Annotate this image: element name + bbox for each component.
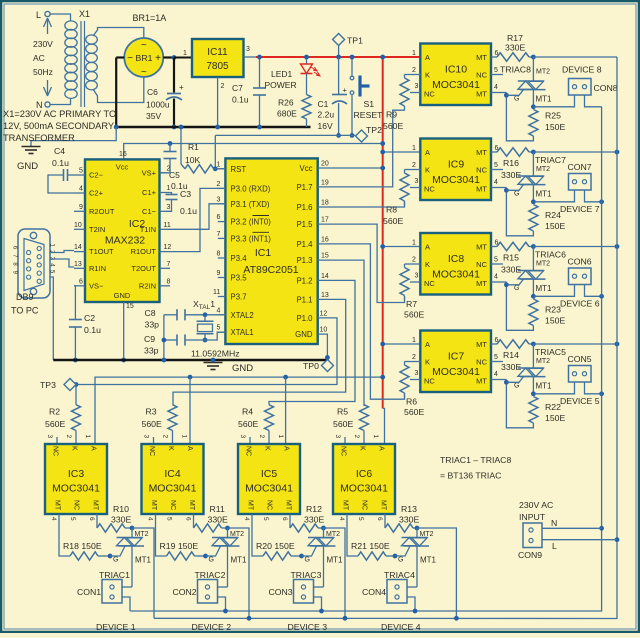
svg-text:150E: 150E — [545, 413, 565, 423]
svg-text:MOC3041: MOC3041 — [432, 366, 480, 378]
svg-text:DEVICE 1: DEVICE 1 — [96, 622, 136, 632]
pin labels 4 5 6 — [338, 517, 383, 521]
wire A IC6 — [383, 408, 385, 444]
svg-text:18: 18 — [321, 200, 329, 207]
svg-text:TRIAC6: TRIAC6 — [535, 250, 566, 260]
pin 5 stub — [491, 257, 503, 265]
pin 16 wire to R6 — [318, 236, 405, 399]
svg-text:~: ~ — [141, 67, 147, 78]
svg-text:330E: 330E — [505, 43, 525, 53]
svg-text:C2−: C2− — [89, 171, 104, 180]
label R10 — [111, 504, 131, 525]
wire L bus — [154, 57, 617, 619]
wire — [214, 135, 216, 168]
resistor R20 150E — [252, 514, 304, 560]
pin 2 — [217, 181, 226, 189]
wire — [172, 99, 177, 130]
label CON8 — [594, 83, 618, 93]
svg-text:3: 3 — [167, 204, 171, 211]
triac TRIAC7 — [518, 152, 546, 202]
svg-text:MT1: MT1 — [327, 556, 344, 565]
svg-text:35V: 35V — [146, 111, 161, 121]
svg-text:G: G — [305, 557, 310, 564]
pin 1 label — [412, 337, 416, 344]
svg-text:DEVICE 7: DEVICE 7 — [560, 204, 600, 214]
svg-text:12: 12 — [320, 310, 328, 317]
svg-text:MOC3041: MOC3041 — [432, 269, 480, 281]
wire — [74, 286, 75, 320]
svg-text:K: K — [425, 260, 430, 269]
wire CON to N row — [218, 597, 228, 613]
pin labels 4 5 6 — [243, 517, 288, 521]
resistor R18 150E — [59, 514, 112, 560]
wire MT2 to L bus — [533, 56, 617, 58]
connector CON8 — [569, 79, 592, 96]
svg-text:NC: NC — [361, 500, 368, 510]
wire CON to MT1 — [533, 382, 574, 394]
wire — [257, 95, 262, 129]
svg-text:5: 5 — [69, 517, 76, 521]
svg-text:P1.4: P1.4 — [296, 240, 313, 249]
svg-text:DEVICE 3: DEVICE 3 — [288, 622, 328, 632]
svg-text:C1: C1 — [318, 99, 329, 109]
svg-text:G: G — [514, 191, 519, 198]
svg-text:LED1: LED1 — [271, 69, 293, 79]
svg-text:15: 15 — [321, 253, 329, 260]
resistor R14 330E — [497, 340, 536, 348]
svg-text:R8: R8 — [386, 205, 397, 215]
label CON6 — [568, 257, 592, 267]
label R11 — [208, 504, 228, 525]
svg-text:A: A — [283, 446, 290, 451]
svg-text:K: K — [167, 446, 174, 451]
wire DB9 pin3 — [50, 259, 74, 267]
pin 2 stub — [405, 257, 421, 265]
svg-text:T1OUT: T1OUT — [89, 247, 114, 256]
svg-text:CON6: CON6 — [568, 257, 592, 267]
svg-text:19: 19 — [321, 179, 329, 186]
resistor R19 150E — [156, 514, 208, 560]
svg-text:G: G — [209, 557, 214, 564]
svg-text:3: 3 — [415, 178, 419, 185]
svg-text:4: 4 — [79, 186, 83, 193]
pin 15 ground wire — [121, 302, 134, 362]
svg-text:16: 16 — [321, 236, 329, 243]
svg-text:3: 3 — [143, 435, 150, 439]
svg-text:AT89C2051: AT89C2051 — [243, 264, 298, 276]
label R6 — [404, 397, 424, 418]
svg-text:NC: NC — [340, 446, 347, 456]
label R23 — [545, 305, 565, 326]
svg-text:150E: 150E — [545, 316, 565, 326]
svg-text:5: 5 — [79, 168, 83, 175]
svg-text:X1: X1 — [79, 9, 90, 19]
svg-text:MT1: MT1 — [536, 190, 553, 199]
label BR1=1A — [133, 13, 167, 23]
wire to XTAL1 pin — [205, 332, 225, 340]
wire CON to MT1 — [533, 285, 574, 297]
svg-text:330E: 330E — [501, 265, 521, 275]
label TRIAC8 — [500, 65, 531, 75]
resistor R4 560E — [265, 405, 274, 444]
label G — [113, 557, 118, 564]
wire to RST — [213, 166, 225, 171]
svg-text:MT: MT — [476, 53, 487, 62]
svg-text:CON1: CON1 — [77, 587, 101, 597]
svg-text:560E: 560E — [383, 121, 403, 131]
wire — [50, 98, 71, 105]
svg-text:IC3: IC3 — [68, 468, 85, 480]
svg-text:R10: R10 — [113, 504, 129, 514]
svg-text:C7: C7 — [232, 83, 243, 93]
label DEVICE 3 — [288, 622, 328, 632]
label TRIAC1 — [99, 570, 130, 580]
svg-text:1: 1 — [167, 185, 171, 192]
svg-text:3: 3 — [217, 196, 221, 203]
pin 6 stub — [491, 145, 499, 152]
svg-text:R16: R16 — [503, 158, 519, 168]
wire CON to N bus — [585, 190, 604, 204]
pin 2 stub — [405, 162, 421, 170]
label R12 — [304, 504, 324, 525]
svg-text:2: 2 — [65, 435, 72, 439]
svg-text:P3.2 (INT0): P3.2 (INT0) — [231, 218, 272, 227]
svg-text:IC7: IC7 — [448, 351, 465, 363]
label R22 — [545, 402, 565, 423]
label MT1 — [536, 382, 553, 391]
label G — [305, 557, 310, 564]
svg-text:4: 4 — [494, 179, 498, 186]
pin 8 stub — [160, 278, 171, 286]
wire +5V rail — [256, 56, 383, 58]
test point TP1 — [333, 34, 364, 46]
svg-text:1: 1 — [183, 50, 187, 57]
svg-text:R11: R11 — [210, 504, 225, 514]
svg-text:CON2: CON2 — [173, 587, 197, 597]
pin 3 stub — [410, 83, 420, 93]
resistor R26 — [277, 95, 311, 120]
svg-text:3: 3 — [239, 435, 246, 439]
svg-text:5: 5 — [166, 517, 173, 521]
svg-text:1: 1 — [372, 435, 379, 439]
label R21 — [351, 541, 390, 551]
wire gate — [206, 546, 221, 556]
svg-text:1: 1 — [217, 161, 221, 168]
svg-text:6: 6 — [281, 517, 288, 521]
svg-text:NC: NC — [245, 446, 252, 456]
pin stub NC — [344, 437, 346, 444]
svg-text:TRIAC1 – TRIAC8: TRIAC1 – TRIAC8 — [440, 455, 511, 465]
svg-text:AC: AC — [33, 53, 45, 63]
svg-text:5: 5 — [262, 517, 269, 521]
optocoupler IC7 MOC3041 — [420, 331, 491, 393]
svg-text:7: 7 — [167, 261, 171, 268]
svg-text:R24: R24 — [545, 210, 561, 220]
resistor R3 560E — [168, 405, 177, 444]
svg-text:8: 8 — [217, 251, 221, 258]
pin labels 4 5 6 — [147, 517, 192, 521]
svg-text:XTAL1: XTAL1 — [231, 328, 254, 337]
pin 3 — [217, 196, 226, 204]
pin labels 4 5 6 — [50, 517, 95, 521]
svg-text:560E: 560E — [333, 419, 353, 429]
pin 2 stub — [160, 165, 171, 173]
svg-text:12V, 500mA SECONDARY: 12V, 500mA SECONDARY — [3, 121, 114, 131]
svg-text:MT2: MT2 — [536, 69, 550, 76]
svg-text:CON3: CON3 — [269, 587, 293, 597]
label R16 — [501, 158, 521, 180]
switch S1 reset — [350, 76, 383, 121]
svg-text:A: A — [90, 446, 97, 451]
pin 12 stub — [160, 244, 172, 252]
pin 15 wire to R5 — [318, 253, 364, 406]
triac TRIAC5 — [518, 344, 546, 394]
svg-text:MOC3041: MOC3041 — [340, 483, 388, 495]
svg-text:DEVICE 4: DEVICE 4 — [381, 622, 421, 632]
svg-text:1000u: 1000u — [146, 100, 170, 110]
svg-text:16: 16 — [119, 151, 127, 158]
svg-text:11: 11 — [213, 289, 220, 296]
svg-text:G: G — [113, 557, 118, 564]
pin 7 stub — [160, 261, 171, 269]
svg-text:150E: 150E — [545, 122, 565, 132]
svg-text:560E: 560E — [404, 407, 424, 417]
svg-text:T2IN: T2IN — [89, 225, 105, 234]
optocoupler IC4 MOC3041 — [142, 444, 204, 514]
wire +5V to IC7 pin A — [380, 342, 420, 347]
label C9 33p — [144, 334, 159, 356]
pin labels 3 2 1 — [334, 435, 379, 439]
svg-text:MT: MT — [476, 148, 487, 157]
ground — [204, 358, 254, 374]
wire CON to N bus — [585, 285, 604, 299]
svg-text:2: 2 — [221, 83, 225, 90]
pin labels 3 2 1 — [46, 435, 91, 439]
pin 3 stub — [244, 46, 257, 57]
svg-text:L: L — [552, 541, 557, 551]
label R19 — [160, 541, 199, 551]
label R7 — [404, 299, 424, 320]
pin 12 wire to R2 / TP3 — [74, 310, 337, 404]
label TRIAC6 — [535, 250, 566, 260]
svg-text:−: − — [127, 53, 133, 64]
svg-text:1: 1 — [84, 435, 91, 439]
svg-text:CON4: CON4 — [362, 587, 386, 597]
svg-text:K: K — [425, 358, 430, 367]
svg-text:MT1: MT1 — [231, 556, 248, 565]
label CON4 — [362, 587, 386, 597]
svg-text:3: 3 — [415, 273, 419, 280]
svg-text:11.0592MHz: 11.0592MHz — [191, 349, 240, 359]
svg-text:7805: 7805 — [206, 61, 229, 72]
optocoupler IC8 MOC3041 — [420, 233, 491, 295]
svg-text:C6: C6 — [147, 87, 158, 97]
svg-text:0.1u: 0.1u — [232, 95, 249, 105]
resistor R16 330E — [497, 148, 536, 156]
svg-text:A: A — [425, 243, 430, 252]
svg-text:P1.1: P1.1 — [296, 295, 312, 304]
svg-text:4: 4 — [494, 84, 498, 91]
svg-text:P3.3 (INT1): P3.3 (INT1) — [231, 234, 272, 243]
svg-text:R14: R14 — [503, 350, 519, 360]
label R8 — [383, 205, 403, 227]
pin 13 wire to R3 — [173, 292, 346, 405]
svg-text:P1.5: P1.5 — [296, 220, 313, 229]
svg-text:~: ~ — [141, 40, 147, 51]
node CON9 joins — [599, 526, 619, 542]
wire DB9 ground — [50, 277, 53, 360]
label MT2 — [326, 531, 340, 538]
pin 4 stub — [491, 84, 506, 93]
svg-text:10: 10 — [320, 327, 328, 334]
svg-text:MOC3041: MOC3041 — [52, 483, 100, 495]
wire GND bus — [53, 359, 327, 361]
svg-text:150E: 150E — [545, 221, 565, 231]
svg-text:P3.7: P3.7 — [231, 293, 247, 302]
svg-text:Vcc: Vcc — [300, 164, 313, 173]
wire MT2 to L row — [228, 528, 252, 621]
wire — [350, 95, 355, 138]
pin 6 stub — [491, 337, 499, 344]
svg-text:CON5: CON5 — [568, 354, 592, 364]
label 230V AC INPUT — [519, 500, 553, 522]
svg-text:L: L — [36, 10, 41, 20]
pin 6 stub — [74, 278, 85, 286]
svg-text:MT1: MT1 — [420, 556, 437, 565]
svg-text:560E: 560E — [404, 310, 424, 320]
wire secondary bottom — [93, 77, 144, 103]
svg-text:A: A — [378, 446, 385, 451]
svg-text:DEVICE 5: DEVICE 5 — [560, 396, 600, 406]
node C5 top — [168, 141, 173, 151]
svg-text:NC: NC — [266, 500, 273, 510]
svg-text:2: 2 — [353, 435, 360, 439]
svg-text:3: 3 — [46, 435, 53, 439]
pin stub NC — [153, 437, 155, 444]
svg-text:K: K — [359, 446, 366, 451]
wire gate — [506, 279, 523, 285]
svg-text:0.1u: 0.1u — [180, 206, 197, 216]
pin 1 label — [412, 145, 416, 152]
svg-text:MT: MT — [342, 500, 349, 511]
wire N bus — [130, 107, 601, 611]
svg-text:IC5: IC5 — [261, 468, 278, 480]
svg-text:MT2: MT2 — [536, 261, 550, 268]
svg-text:R2OUT: R2OUT — [89, 207, 115, 216]
svg-text:9: 9 — [217, 270, 221, 277]
svg-text:2: 2 — [412, 162, 416, 169]
svg-text:560E: 560E — [45, 419, 65, 429]
svg-text:MT1: MT1 — [536, 284, 553, 293]
svg-text:MT: MT — [188, 500, 195, 511]
svg-text:5: 5 — [494, 162, 498, 169]
wire CON to N row — [314, 597, 324, 613]
svg-text:R19 150E: R19 150E — [160, 541, 199, 551]
svg-text:T1IN: T1IN — [140, 225, 156, 234]
pin 14 stub — [74, 244, 85, 252]
svg-text:2: 2 — [167, 165, 171, 172]
pin 9 stub — [74, 204, 85, 212]
svg-text:3: 3 — [415, 83, 419, 90]
label MT2 — [420, 531, 434, 538]
svg-text:9: 9 — [79, 204, 83, 211]
svg-text:MOC3041: MOC3041 — [432, 174, 480, 186]
wire — [336, 103, 341, 138]
resistor R8 560E — [400, 170, 409, 206]
wire Vcc feed — [119, 141, 385, 159]
wire gate — [506, 90, 523, 96]
ground — [17, 147, 41, 173]
svg-text:IC4: IC4 — [164, 468, 181, 480]
pin 2 stub — [405, 354, 421, 362]
svg-text:P1.0: P1.0 — [296, 314, 313, 323]
pin 11 stub — [160, 222, 171, 230]
optocoupler IC5 MOC3041 — [238, 444, 300, 514]
svg-text:33p: 33p — [144, 346, 159, 356]
svg-text:DEVICE 8: DEVICE 8 — [562, 65, 602, 75]
optocoupler IC6 MOC3041 — [333, 444, 395, 514]
pin 10 GND wire — [318, 327, 330, 360]
svg-text:TP0: TP0 — [303, 361, 319, 371]
svg-text:P3.4: P3.4 — [231, 254, 248, 263]
svg-text:R25: R25 — [545, 111, 561, 121]
resistor R12 330E — [290, 514, 326, 532]
svg-text:2.2u: 2.2u — [318, 110, 335, 120]
wire RST net — [215, 134, 355, 136]
label DEVICE 8 — [562, 65, 602, 75]
svg-text:P1.6: P1.6 — [296, 203, 312, 212]
svg-text:TP1: TP1 — [347, 36, 363, 46]
wire — [50, 14, 71, 21]
svg-text:G: G — [398, 557, 403, 564]
wire +5V vertical rail — [382, 57, 384, 408]
svg-text:R26: R26 — [278, 98, 294, 108]
svg-text:C2+: C2+ — [89, 189, 104, 198]
node L terminal — [36, 10, 50, 20]
svg-text:5: 5 — [494, 67, 498, 74]
wire TXD — [166, 204, 225, 230]
svg-text:N: N — [551, 518, 557, 528]
capacitor C1 — [318, 57, 348, 131]
svg-text:+: + — [155, 53, 161, 64]
wire gate — [302, 546, 317, 556]
pin 3 stub — [410, 370, 420, 380]
pin 10 stub — [74, 222, 85, 230]
capacitor C3 — [166, 189, 198, 216]
wire — [304, 55, 309, 64]
pin 3 stub — [160, 204, 171, 212]
svg-text:4: 4 — [494, 371, 498, 378]
label CON5 — [568, 354, 592, 364]
label R18 — [63, 541, 102, 551]
triac TRIAC2 — [212, 528, 240, 587]
svg-text:1: 1 — [412, 240, 416, 247]
svg-text:C1+: C1+ — [142, 188, 157, 197]
resistor R9 560E — [400, 75, 409, 111]
label TRIAC4 — [384, 570, 415, 580]
svg-text:330E: 330E — [304, 515, 324, 525]
optocoupler IC3 MOC3041 — [45, 444, 107, 514]
svg-text:12: 12 — [164, 244, 172, 251]
svg-text:33p: 33p — [145, 320, 160, 330]
svg-text:C5: C5 — [169, 170, 180, 180]
wire gate loop — [504, 188, 533, 236]
wire gate — [506, 185, 523, 191]
svg-text:330E: 330E — [501, 362, 521, 372]
test point TP3 — [40, 379, 76, 391]
svg-text:6: 6 — [88, 517, 95, 521]
resistor R13 330E — [385, 514, 419, 532]
